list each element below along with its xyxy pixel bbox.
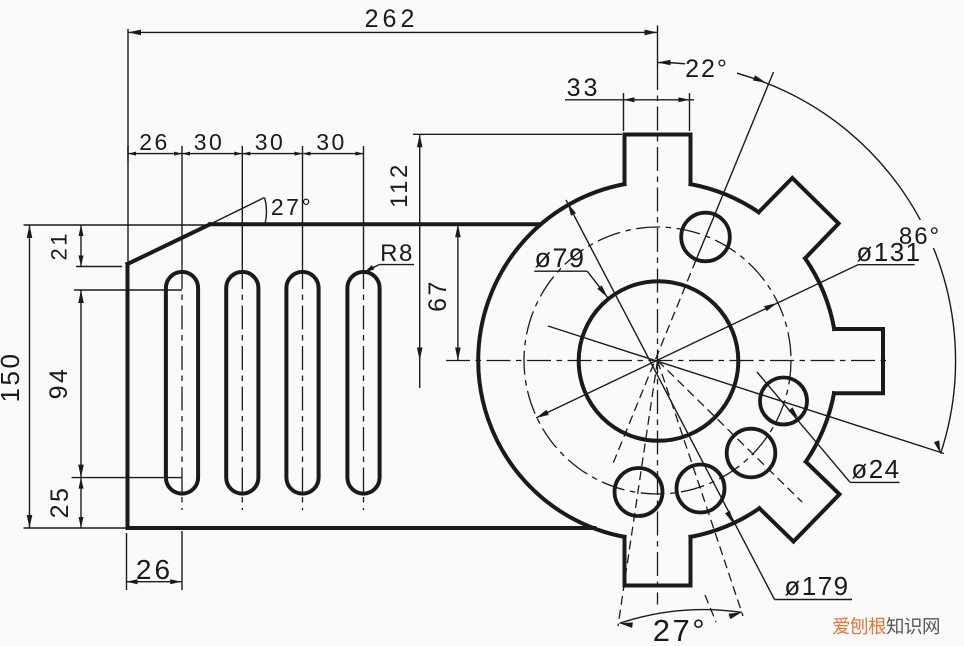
- dim 33: [565, 99, 694, 101]
- svg-text:ø79: ø79: [534, 243, 585, 273]
- svg-text:27°: 27°: [653, 613, 707, 646]
- slot 1 centerline: [181, 146, 183, 265]
- bolt circle Ø131 dash-dot: [524, 227, 791, 494]
- dashed radial through bottom-left hole: [618, 361, 658, 627]
- lower-right gear tooth: [759, 462, 839, 542]
- dim 22deg text: [685, 53, 737, 81]
- svg-text:262: 262: [365, 5, 419, 33]
- dim 25: [80, 478, 82, 528]
- dim arc 27deg bottom: [620, 610, 742, 624]
- right-mid hole Ø24: [760, 378, 807, 425]
- plate chamfer 27deg: [128, 224, 211, 264]
- upper-right gear tooth: [759, 178, 839, 258]
- dim 67: [457, 224, 459, 360]
- svg-text:67: 67: [424, 279, 452, 312]
- chain dim ticks: [127, 146, 129, 161]
- svg-text:ø179: ø179: [784, 571, 849, 601]
- dim Ø24: [850, 481, 899, 483]
- plate top edge: [210, 222, 540, 226]
- plate left edge: [126, 264, 130, 528]
- svg-text:112: 112: [386, 162, 413, 208]
- top hole Ø24 (22deg): [681, 213, 730, 262]
- hole Ø24 bottom-right: [677, 465, 725, 513]
- right tab: [834, 329, 883, 393]
- radial line through right-mid hole (86deg): [548, 326, 944, 454]
- svg-text:R8: R8: [380, 240, 414, 267]
- svg-text:25: 25: [46, 486, 74, 519]
- slot 1 (R8 stadium): [166, 272, 198, 494]
- dim 27deg chamfer: [210, 198, 265, 225]
- dim R8: [379, 264, 414, 266]
- slot 2 (R8 stadium): [226, 272, 258, 494]
- flange outer arc Ø179 segment right-lower: [806, 393, 834, 462]
- dim Ø79: [534, 270, 587, 272]
- top key tab 33 wide: [625, 135, 691, 185]
- svg-text:ø24: ø24: [851, 454, 900, 484]
- dim 26 bottom: [127, 581, 182, 583]
- dim 150: [29, 225, 31, 528]
- dim 94: [80, 290, 82, 478]
- dim 262 line: [128, 31, 658, 33]
- svg-text:30: 30: [255, 129, 286, 155]
- radial line 22deg through top hole: [696, 72, 774, 260]
- svg-text:30: 30: [194, 129, 225, 155]
- chain dim line: [128, 153, 364, 155]
- flange outer arc Ø179 segment right-upper: [805, 258, 834, 329]
- vertical centerline: [657, 25, 659, 66]
- slot 3 centerline: [302, 146, 304, 265]
- hole Ø24 lower-right: [727, 429, 776, 478]
- svg-text:33: 33: [567, 74, 601, 102]
- dashed radial through bottom-right hole: [658, 361, 744, 617]
- svg-text:26: 26: [139, 129, 170, 155]
- svg-text:27°: 27°: [271, 194, 313, 220]
- flange outer arc Ø179 segment top-right: [691, 184, 759, 212]
- plate bottom edge: [128, 526, 595, 530]
- dim 86deg text: [897, 220, 943, 248]
- horizontal centerline: [446, 360, 886, 362]
- center hole Ø79: [579, 281, 739, 441]
- slot 4 (R8 stadium): [347, 272, 379, 494]
- svg-text:150: 150: [0, 352, 25, 403]
- slot 3 (R8 stadium): [286, 272, 318, 494]
- short dashed segment below bottom tab: [705, 595, 716, 622]
- svg-text:ø131: ø131: [856, 237, 921, 267]
- svg-text:爱刨根知识网: 爱刨根知识网: [832, 616, 940, 637]
- svg-text:30: 30: [316, 129, 347, 155]
- svg-text:94: 94: [45, 367, 73, 400]
- dim Ø131: [858, 264, 915, 266]
- dim 112: [419, 134, 421, 388]
- svg-text:21: 21: [47, 231, 72, 260]
- hole Ø24 bottom-left: [615, 468, 663, 516]
- dashed radial through lower-right hole: [658, 361, 803, 503]
- slot 4 centerline: [363, 146, 365, 265]
- flange outer arc Ø179 segment bottom-right: [691, 508, 760, 537]
- svg-text:22°: 22°: [685, 55, 729, 83]
- dim 21: [80, 225, 82, 267]
- flange outer arc Ø179 segment left (main): [478, 184, 624, 537]
- bottom tab: [625, 537, 691, 586]
- dim arc 22deg-86deg: [658, 63, 956, 454]
- svg-text:26: 26: [136, 554, 173, 585]
- dim Ø179: [775, 599, 853, 601]
- slot 2 centerline: [241, 146, 243, 265]
